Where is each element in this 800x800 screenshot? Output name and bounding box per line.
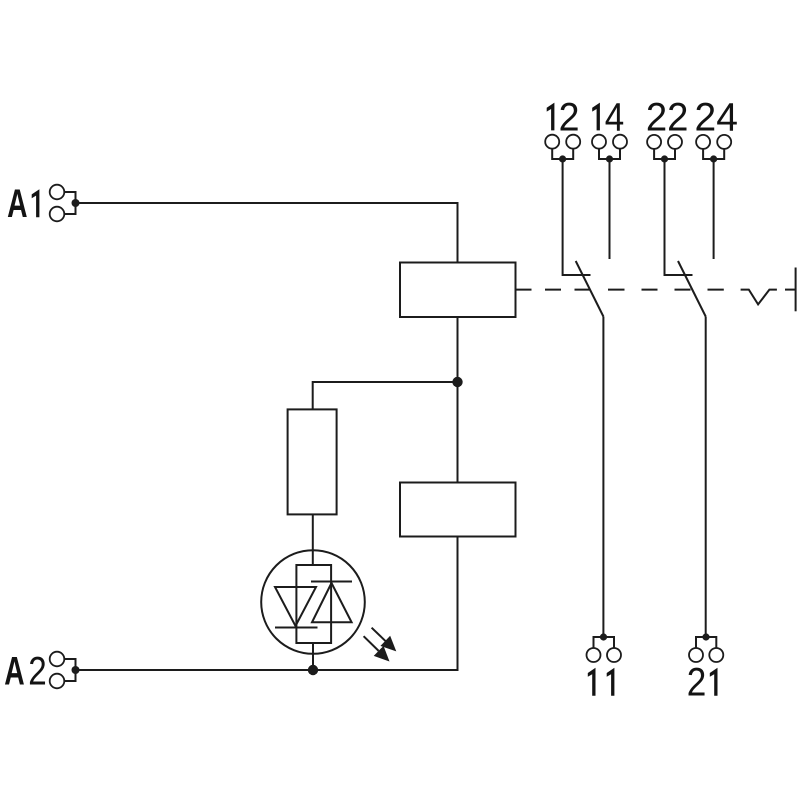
svg-text:A: A <box>4 650 24 694</box>
wire A1 to coil <box>76 203 458 263</box>
svg-text:4: 4 <box>605 94 624 139</box>
label 14 <box>592 94 624 139</box>
wire coil to node 1 <box>457 317 459 382</box>
wire node 1 to protection module <box>457 382 459 483</box>
dashed actuation line from coil <box>516 289 724 291</box>
label 12 <box>547 95 580 139</box>
LED inner rectangle <box>296 565 331 643</box>
terminal 14 (double screw clamp) <box>592 135 627 163</box>
svg-text:22: 22 <box>646 96 689 140</box>
junction node 1 <box>452 377 462 387</box>
resistor R1 <box>288 409 337 514</box>
LED diode right (cathode up) <box>311 582 352 623</box>
label 24 <box>695 95 738 140</box>
wire contact 1 common to terminal 11 <box>602 317 604 638</box>
label 22 <box>646 96 689 140</box>
changeover contact 1 moving blade <box>576 261 604 317</box>
wire terminal 24 to NO contact <box>713 159 715 259</box>
label 21 <box>687 660 718 705</box>
LED light emission arrow 2 <box>359 631 395 666</box>
terminal 24 (double screw clamp) <box>696 135 731 163</box>
terminal A2 (double screw clamp) <box>50 652 80 689</box>
wire terminal 22 to NC contact <box>665 159 693 275</box>
protection module (rectifier block) <box>400 483 516 537</box>
relay coil K1 <box>400 263 516 318</box>
wire resistor R1 to LED <box>312 514 314 565</box>
label 11 <box>588 668 615 696</box>
terminal 12 (double screw clamp) <box>545 135 580 163</box>
LED diode left (cathode down) <box>275 587 318 628</box>
terminal 21 (double screw clamp) <box>689 633 723 662</box>
svg-text:2: 2 <box>559 95 580 139</box>
end stop bar <box>795 268 797 312</box>
label A2 <box>4 649 47 694</box>
mechanical linkage V symbol <box>741 290 777 305</box>
wire node 1 to resistor R1 <box>313 382 458 409</box>
wire LED to junction node 2 <box>312 643 314 670</box>
svg-text:24: 24 <box>695 95 738 140</box>
label A1 <box>7 183 39 227</box>
wire contact 2 common to terminal 21 <box>705 317 707 638</box>
terminal 11 (double screw clamp) <box>587 633 622 662</box>
LED light emission arrow 1 <box>367 623 401 657</box>
wire terminal 14 to NO contact <box>609 159 611 259</box>
svg-text:2: 2 <box>687 660 707 705</box>
svg-text:A: A <box>7 183 27 227</box>
dashed line end segment <box>785 289 796 291</box>
terminal 22 (double screw clamp) <box>647 135 682 163</box>
svg-text:2: 2 <box>28 649 46 694</box>
changeover contact 2 moving blade <box>678 261 706 317</box>
terminal A1 (double screw clamp) <box>50 185 80 222</box>
junction node 2 <box>308 665 318 675</box>
wire terminal 12 to NC contact <box>563 159 591 275</box>
LED indicator circle <box>261 550 365 654</box>
wire protection module to A2 rail <box>76 537 458 671</box>
